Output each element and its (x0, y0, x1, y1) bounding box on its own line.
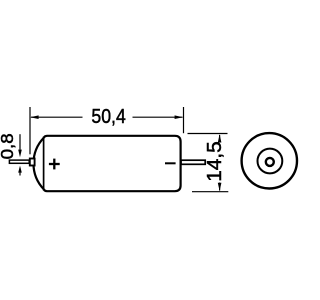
left lead wire (9, 160, 29, 163)
svg-text:14,5: 14,5 (203, 141, 226, 182)
end view: outer circle (242, 133, 297, 188)
dimension 50,4 : left extension line (29, 107, 31, 154)
plus sign (49, 159, 60, 170)
dimension 14,5 : top extension line (188, 133, 228, 135)
body seam line (43, 137, 45, 191)
dimension 14,5 : top arrow (219, 135, 221, 143)
right lead wire (181, 160, 205, 164)
positive terminal nub (30, 159, 35, 166)
svg-text:50,4: 50,4 (91, 105, 125, 128)
end view: middle circle (258, 149, 283, 174)
dimension 14,5 : bottom arrow (219, 183, 221, 191)
end view: inner circle (terminal) (266, 158, 274, 166)
dimension 50,4 : left dimension line + arrow (31, 116, 83, 118)
dimension 14,5 : bottom extension line (192, 191, 228, 193)
minus sign (165, 162, 176, 164)
dimension 50,4 : right extension line (183, 107, 185, 133)
dimension 0,8 : upper arrow (19, 134, 21, 151)
dimension 50,4 : right dimension line + arrow (133, 116, 183, 118)
dimension 0,8 : lower arrow (19, 171, 21, 176)
battery body (side view) (33, 136, 180, 191)
svg-text:0,8: 0,8 (0, 133, 17, 159)
